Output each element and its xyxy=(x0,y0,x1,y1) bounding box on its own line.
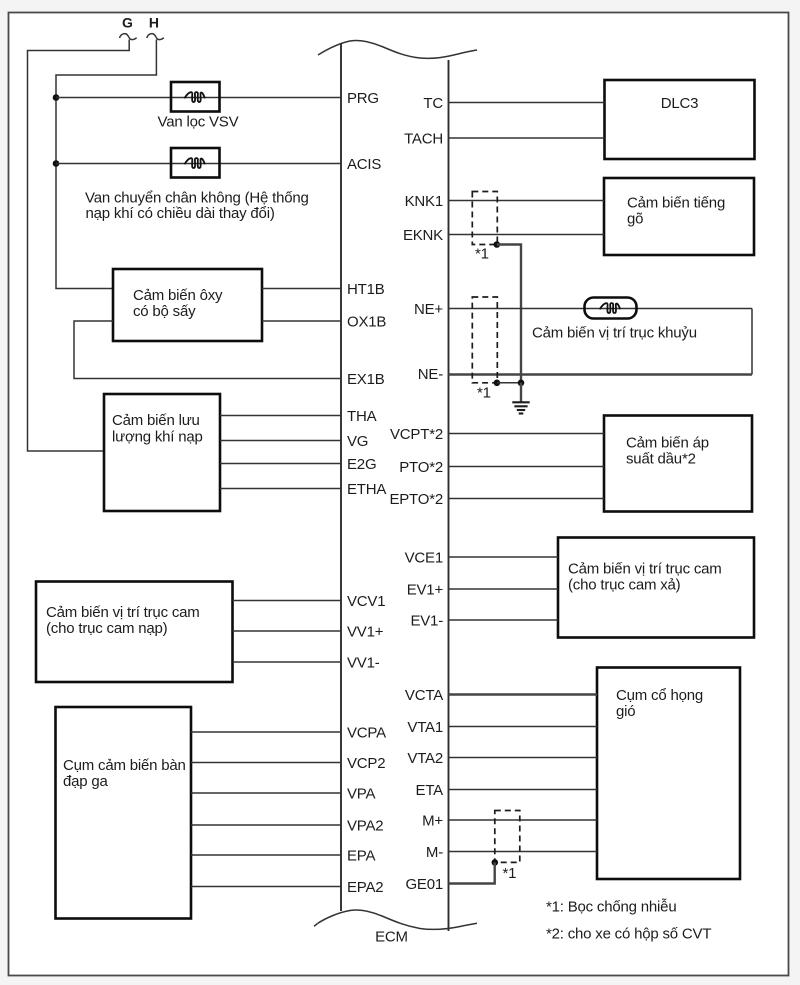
ECM bottom tear left tick xyxy=(314,924,318,927)
svg-text:Cảm biến áp: Cảm biến áp xyxy=(626,435,709,452)
wire VCV1 xyxy=(233,600,342,602)
wire THA xyxy=(220,415,341,417)
wire ETHA xyxy=(220,488,341,490)
wire ACIS xyxy=(56,163,341,165)
ECM bottom torn edge xyxy=(318,910,478,929)
svg-text:E2G: E2G xyxy=(347,456,376,473)
wire EPA xyxy=(191,854,341,856)
svg-text:Cảm biến tiếng: Cảm biến tiếng xyxy=(627,195,725,212)
wire HT1B xyxy=(262,288,341,290)
wire TC xyxy=(449,102,605,104)
svg-text:*1: *1 xyxy=(477,385,491,402)
oil pressure sensor box xyxy=(604,416,752,512)
svg-text:Cảm biến vị trí trục cam: Cảm biến vị trí trục cam xyxy=(46,604,200,621)
junction dot motor shield xyxy=(492,859,499,866)
svg-text:*1: *1 xyxy=(503,865,517,882)
svg-text:có bộ sấy: có bộ sấy xyxy=(133,303,196,320)
connector H hook xyxy=(147,34,164,40)
svg-text:TC: TC xyxy=(423,95,443,112)
junction dot NE shield xyxy=(494,380,501,387)
svg-text:VV1+: VV1+ xyxy=(347,623,384,640)
wire VTA1 xyxy=(449,726,598,728)
shield of motor wires xyxy=(495,811,520,863)
svg-text:suất dầu*2: suất dầu*2 xyxy=(626,451,696,468)
svg-text:DLC3: DLC3 xyxy=(661,95,699,112)
svg-text:EPA: EPA xyxy=(347,847,375,864)
coil inside pickup symbol xyxy=(600,303,621,313)
svg-text:Cảm biến vị trí trục khuỷu: Cảm biến vị trí trục khuỷu xyxy=(532,325,697,342)
svg-text:VCPT*2: VCPT*2 xyxy=(390,426,443,443)
wire PTO*2 xyxy=(449,466,605,468)
wire EPTO*2 xyxy=(449,498,605,500)
svg-text:VCTA: VCTA xyxy=(405,687,443,704)
wire VCP2 xyxy=(191,762,341,764)
wire TACH xyxy=(449,137,605,139)
wire VPA2 xyxy=(191,824,341,826)
svg-text:EPTO*2: EPTO*2 xyxy=(389,491,443,508)
wire OX1B xyxy=(262,320,341,322)
svg-text:VTA2: VTA2 xyxy=(407,750,443,767)
svg-text:*1: *1 xyxy=(475,246,489,263)
wire from G to air flow meter xyxy=(28,40,130,452)
wire PRG xyxy=(56,97,341,99)
wire knock shield to ground rail xyxy=(497,245,521,383)
svg-text:GE01: GE01 xyxy=(405,876,443,893)
svg-text:ECM: ECM xyxy=(375,929,408,946)
svg-text:gõ: gõ xyxy=(627,211,643,228)
svg-text:Cảm biến vị trí trục cam: Cảm biến vị trí trục cam xyxy=(568,561,722,578)
svg-text:PRG: PRG xyxy=(347,90,379,107)
svg-text:(cho trục cam xả): (cho trục cam xả) xyxy=(568,577,681,594)
wire NE shield to ground xyxy=(497,382,521,384)
wire EV1- xyxy=(449,619,559,621)
wire GE01 xyxy=(449,862,495,883)
wire EPA2 xyxy=(191,886,341,888)
crankshaft sensor pickup coil symbol xyxy=(585,298,637,319)
svg-text:lượng khí nạp: lượng khí nạp xyxy=(112,429,203,446)
svg-text:THA: THA xyxy=(347,408,377,425)
ground symbol xyxy=(512,402,529,413)
svg-text:PTO*2: PTO*2 xyxy=(399,459,443,476)
svg-text:VTA1: VTA1 xyxy=(407,719,443,736)
svg-text:EV1-: EV1- xyxy=(410,612,443,629)
svg-text:NE+: NE+ xyxy=(414,301,443,318)
svg-text:ACIS: ACIS xyxy=(347,156,381,173)
svg-text:Cảm biến ôxy: Cảm biến ôxy xyxy=(133,287,223,304)
oxygen sensor box xyxy=(113,269,262,341)
svg-text:ETHA: ETHA xyxy=(347,481,386,498)
wire M+ xyxy=(449,819,598,821)
wire EV1+ xyxy=(449,588,559,590)
wire VTA2 xyxy=(449,757,598,759)
ECM right edge xyxy=(448,60,450,931)
svg-text:VPA: VPA xyxy=(347,785,375,802)
svg-text:HT1B: HT1B xyxy=(347,281,385,298)
DLC3 box xyxy=(605,80,755,159)
air flow meter box xyxy=(104,394,220,511)
junction dot on PRG branch xyxy=(53,94,60,101)
wire VCE1 xyxy=(449,556,559,558)
knock sensor box xyxy=(604,178,754,255)
wire EKNK xyxy=(449,234,605,236)
junction dot ground rail xyxy=(518,380,525,387)
svg-text:*1: Bọc chống nhiễu: *1: Bọc chống nhiễu xyxy=(546,899,676,916)
svg-text:ETA: ETA xyxy=(416,782,444,799)
crank sensor right return wire xyxy=(751,309,753,375)
svg-text:VG: VG xyxy=(347,433,368,450)
wire VV1+ xyxy=(233,630,342,632)
svg-text:EKNK: EKNK xyxy=(403,227,443,244)
wire VCTA xyxy=(449,693,598,695)
junction dot on ACIS branch xyxy=(53,160,60,167)
svg-text:*2: cho xe có hộp số CVT: *2: cho xe có hộp số CVT xyxy=(546,926,711,943)
coil of Van chuyen chan khong xyxy=(184,158,205,168)
wire from H down left rail xyxy=(56,40,156,289)
accelerator pedal sensor box xyxy=(56,707,192,919)
svg-text:EX1B: EX1B xyxy=(347,371,385,388)
svg-text:M+: M+ xyxy=(422,812,443,829)
svg-text:VCPA: VCPA xyxy=(347,724,386,741)
wire down to ground xyxy=(520,383,522,402)
coil of Van loc VSV xyxy=(184,92,205,102)
wire KNK1 xyxy=(449,200,605,202)
svg-text:EPA2: EPA2 xyxy=(347,879,383,896)
wire E2G xyxy=(220,463,341,465)
wire EX1B xyxy=(74,321,341,379)
svg-text:VCP2: VCP2 xyxy=(347,755,385,772)
shield of knock sensor wires xyxy=(472,192,497,245)
svg-text:Van lọc VSV: Van lọc VSV xyxy=(158,114,239,131)
wire VG xyxy=(220,440,341,442)
wire VCPA xyxy=(191,731,341,733)
wire NE- xyxy=(449,373,753,375)
svg-text:OX1B: OX1B xyxy=(347,313,386,330)
svg-text:VCE1: VCE1 xyxy=(405,549,443,566)
ECM left edge xyxy=(340,44,342,911)
wire NE+ xyxy=(449,308,753,310)
svg-text:G: G xyxy=(122,15,133,31)
svg-text:gió: gió xyxy=(616,703,635,720)
svg-text:(cho trục cam nạp): (cho trục cam nạp) xyxy=(46,620,168,637)
svg-text:đạp ga: đạp ga xyxy=(63,773,109,790)
wire M- xyxy=(449,851,598,853)
svg-text:VV1-: VV1- xyxy=(347,654,380,671)
svg-text:nạp khí có chiều dài thay đổi): nạp khí có chiều dài thay đổi) xyxy=(86,205,275,222)
svg-text:Cụm cảm biến bàn: Cụm cảm biến bàn xyxy=(63,757,186,774)
svg-text:H: H xyxy=(149,15,159,31)
exhaust camshaft position sensor box xyxy=(558,538,754,638)
intake camshaft position sensor box xyxy=(36,582,233,683)
svg-text:M-: M- xyxy=(426,844,443,861)
svg-text:EV1+: EV1+ xyxy=(407,581,444,598)
solenoid valve box (Van chuyen chan khong) xyxy=(171,148,220,178)
svg-text:TACH: TACH xyxy=(404,130,443,147)
svg-text:NE-: NE- xyxy=(418,366,443,383)
shield of NE wires xyxy=(472,297,497,383)
svg-text:Cảm biến lưu: Cảm biến lưu xyxy=(112,412,200,429)
throttle body box xyxy=(597,668,740,880)
solenoid valve box (Van loc VSV) xyxy=(171,82,220,112)
connector G hook xyxy=(120,34,137,40)
svg-text:VPA2: VPA2 xyxy=(347,817,383,834)
svg-text:Van chuyển chân không (Hệ thốn: Van chuyển chân không (Hệ thống xyxy=(85,190,309,207)
ECM top torn edge xyxy=(318,40,477,58)
wire VPA xyxy=(191,792,341,794)
svg-text:Cụm cổ họng: Cụm cổ họng xyxy=(616,687,703,704)
svg-text:VCV1: VCV1 xyxy=(347,593,385,610)
junction dot knock shield xyxy=(494,241,501,248)
wire VV1- xyxy=(233,661,342,663)
svg-text:KNK1: KNK1 xyxy=(405,193,443,210)
wire ETA xyxy=(449,789,598,791)
wire VCPT*2 xyxy=(449,433,605,435)
